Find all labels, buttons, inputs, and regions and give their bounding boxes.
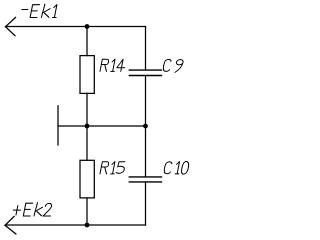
wire: bottom rail +Ek2 [5, 224, 145, 226]
capacitor C10 top plate [129, 176, 161, 178]
capacitor C9 bottom plate [129, 75, 161, 77]
capacitor C9 top plate [129, 69, 161, 71]
wire: resistor branch top (node to R14) [86, 27, 88, 56]
wire: R15 to bottom rail [86, 198, 88, 225]
label C9 [163, 60, 172, 72]
wire: capacitor branch top (rail to C9) [145, 27, 147, 70]
capacitor C10 bottom plate [129, 181, 161, 183]
resistor R14 body [80, 56, 94, 94]
label +Ek2 [12, 206, 21, 215]
junction node: top rail / R branch [85, 24, 90, 29]
wire: middle node to C10 [145, 126, 147, 177]
wire: middle rail [58, 125, 146, 127]
arrowhead on -Ek1 rail [6, 17, 17, 36]
resistor R15 body [80, 160, 94, 198]
junction node: bottom rail / R branch [85, 223, 90, 228]
junction node: middle rail / R branch [85, 124, 90, 129]
wire: C10 to bottom rail [145, 182, 147, 225]
label R15 [100, 162, 109, 174]
arrowhead on +Ek2 rail [5, 216, 16, 234]
electrode bar (common terminal) [57, 106, 59, 145]
wire: C9 to middle node [145, 76, 147, 127]
wire: top rail -Ek1 [6, 26, 146, 28]
wire: middle node to R15 [86, 126, 88, 160]
label -Ek1 [22, 9, 28, 11]
junction node: middle rail / C branch [143, 124, 148, 129]
wire: R14 to middle node [86, 93, 88, 126]
label R14 [100, 59, 109, 71]
label C10 [163, 162, 172, 174]
